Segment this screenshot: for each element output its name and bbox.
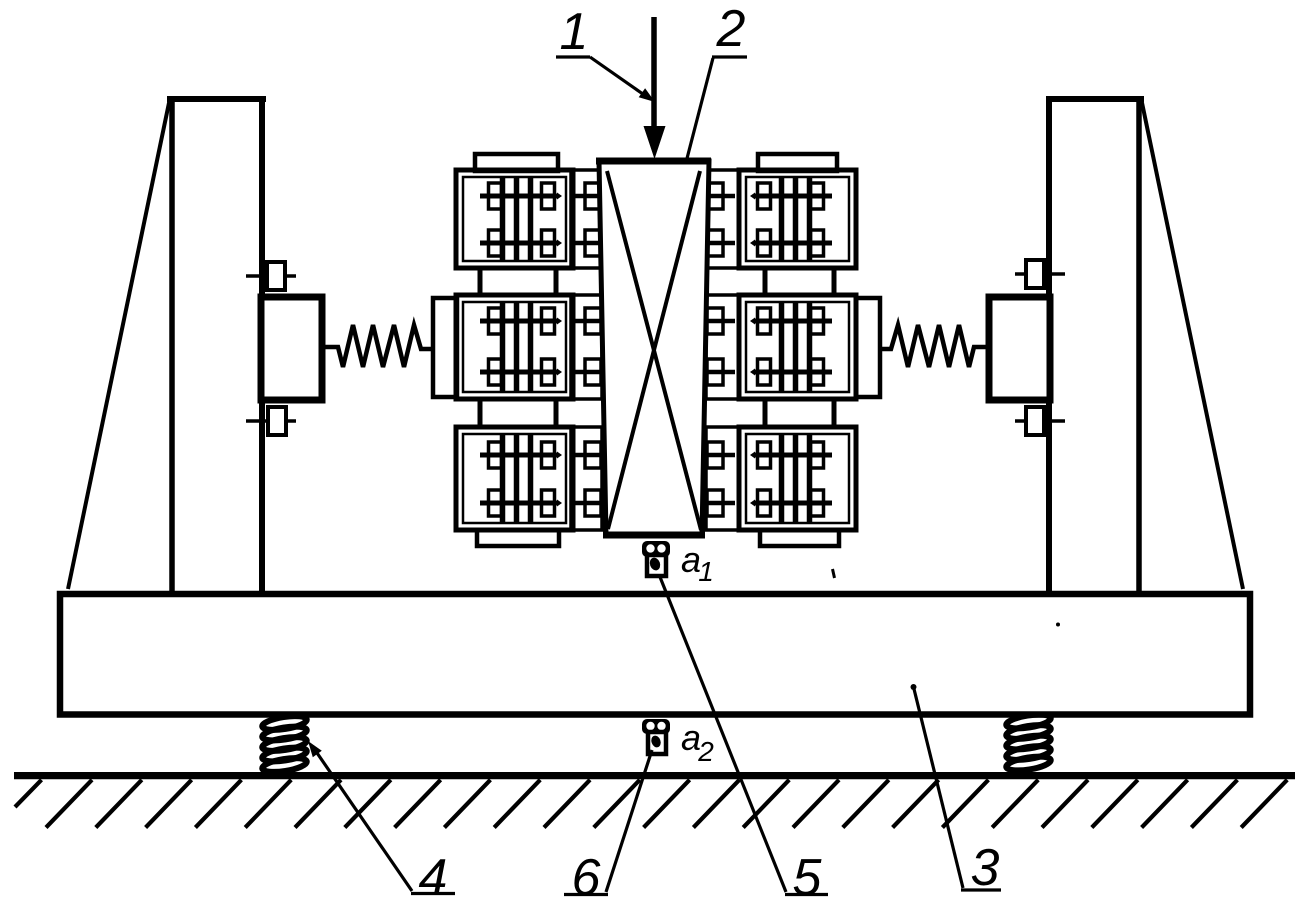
svg-text:6: 6 bbox=[572, 849, 601, 905]
mass block L1 tie bolt 1 tip bbox=[557, 193, 562, 200]
force arrow shaft bbox=[651, 17, 657, 130]
underline of label 1 bbox=[556, 55, 590, 58]
clamp plate L2 bolt 1 bbox=[575, 319, 602, 324]
right spring mount plate bbox=[856, 298, 880, 397]
mass block R3 tie bolt 2 tip bbox=[750, 500, 755, 507]
right support spring 4 bbox=[1005, 712, 1051, 731]
mass block L1 clamp bar 3 bbox=[528, 178, 534, 260]
mass block L1 outer body bbox=[456, 170, 573, 268]
svg-text:3: 3 bbox=[971, 839, 1000, 897]
left stack bottom tab bbox=[477, 530, 559, 546]
right connector link upper a bbox=[763, 266, 768, 297]
mass block L3 bolt bracket 2b bbox=[542, 490, 555, 516]
clamp plate R2 bolt 2 bbox=[706, 370, 735, 375]
right bracket upper bolt pin bbox=[1015, 272, 1065, 276]
left bracket upper bolt pin bbox=[246, 274, 296, 278]
svg-text:1: 1 bbox=[560, 3, 589, 61]
clamp plate R2 bbox=[706, 295, 739, 399]
right connector link lower a bbox=[763, 397, 768, 429]
mass block L1 bolt bracket 2a bbox=[489, 230, 502, 256]
mass block L2 clamp bar 1 bbox=[500, 303, 506, 391]
underline of label 6 bbox=[564, 893, 608, 896]
mass block R2 tie bolt 2 bbox=[754, 370, 832, 375]
left connector link upper b bbox=[554, 266, 559, 297]
svg-text:2: 2 bbox=[697, 736, 714, 767]
mass block R3 outer body bbox=[739, 427, 856, 530]
mass block R1 tie bolt 2 tip bbox=[750, 240, 755, 247]
mass block R1 bolt bracket 2a bbox=[811, 230, 824, 256]
mass block R2 outer body bbox=[739, 295, 856, 399]
sensor a1 head hole right bbox=[657, 544, 665, 552]
left connector link lower a bbox=[478, 397, 483, 429]
mass block R3 clamp bar 1 bbox=[807, 435, 813, 522]
base plate 3 bbox=[60, 594, 1250, 715]
mass block R3 bolt bracket 1b bbox=[758, 442, 771, 468]
left spring bracket bbox=[261, 297, 322, 400]
right bracket lower bolt pin bbox=[1015, 419, 1065, 423]
mass block R2 clamp bar 2 bbox=[793, 303, 799, 391]
right bracket upper bolt body bbox=[1026, 260, 1044, 288]
mass block R2 inner liner bbox=[746, 302, 849, 392]
leader line 1 with arrowhead bbox=[590, 57, 645, 96]
leader line 2 bbox=[662, 58, 713, 255]
svg-text:4: 4 bbox=[419, 849, 448, 905]
clamp plate L3 bbox=[571, 427, 602, 530]
clamp plate R2 bolt 1 bbox=[706, 319, 735, 324]
mass block L1 tie bolt 1 bbox=[480, 194, 558, 199]
sensor a2 head hole left bbox=[646, 722, 654, 730]
mass block L1 tie bolt 2 bbox=[480, 241, 558, 246]
specimen column 2 body bbox=[599, 161, 709, 535]
mass block L2 bolt bracket 1b bbox=[542, 308, 555, 334]
left bracket lower bolt body bbox=[268, 407, 286, 435]
mass block R1 inner liner bbox=[746, 177, 849, 261]
clamp plate R3 bolt 2 bbox=[706, 501, 735, 506]
mass block L3 tie bolt 1 tip bbox=[557, 452, 562, 459]
specimen X diagonal a bbox=[607, 171, 701, 530]
right post left edge bbox=[1046, 96, 1052, 591]
mass block L1 clamp bar 2 bbox=[514, 178, 520, 260]
right post top edge bbox=[1046, 96, 1144, 102]
ground line bbox=[14, 772, 1295, 779]
mass block L2 bolt bracket 1a bbox=[489, 308, 502, 334]
sensor a2 body mark bbox=[650, 734, 663, 748]
mass block L3 inner liner bbox=[463, 434, 566, 523]
left post left edge bbox=[169, 96, 175, 591]
mass block L2 bolt bracket 2a bbox=[489, 359, 502, 385]
clamp plate R1 bolt 2 bbox=[706, 241, 735, 246]
right horizontal coupling spring bbox=[880, 325, 990, 367]
mass block R1 clamp bar 1 bbox=[807, 178, 813, 260]
mass block L3 bolt bracket 2a bbox=[489, 490, 502, 516]
sensor a2 head hole right bbox=[657, 722, 665, 730]
specimen X diagonal b bbox=[608, 171, 700, 529]
right post diagonal brace bbox=[1141, 98, 1243, 589]
svg-text:5: 5 bbox=[793, 849, 823, 905]
left stack top tab bbox=[475, 154, 558, 171]
ground hatching bbox=[15, 780, 1287, 828]
clamp plate L1 bolt 2 bbox=[575, 241, 602, 246]
left connector link upper a bbox=[478, 266, 483, 297]
leader line 6 bbox=[606, 750, 652, 892]
svg-text:2: 2 bbox=[716, 0, 746, 58]
mass block L2 tie bolt 2 tip bbox=[557, 369, 562, 376]
mass block R3 clamp bar 3 bbox=[779, 435, 785, 522]
force arrow head bbox=[644, 126, 666, 159]
svg-text:1: 1 bbox=[698, 556, 714, 587]
leader line 3 bbox=[914, 689, 963, 888]
mass block R2 clamp bar 1 bbox=[807, 303, 813, 391]
mass block L3 clamp bar 1 bbox=[500, 435, 506, 522]
clamp plate L3 bolt 1 bbox=[575, 453, 602, 458]
mass block L2 clamp bar 3 bbox=[528, 303, 534, 391]
mass block L2 inner liner bbox=[463, 302, 566, 392]
mass block L3 tie bolt 1 bbox=[480, 453, 558, 458]
sensor a2 body bbox=[648, 732, 666, 754]
leader line 4 with arrowhead bbox=[315, 750, 412, 891]
mass block L1 bolt bracket 1a bbox=[489, 183, 502, 209]
sensor a1 head hole left bbox=[646, 544, 654, 552]
mass block L2 bolt bracket 2b bbox=[542, 359, 555, 385]
mass block L3 tie bolt 2 tip bbox=[557, 500, 562, 507]
mass block R2 bolt bracket 2b bbox=[758, 359, 771, 385]
leader 3 end dot bbox=[911, 684, 917, 690]
mass block L2 tie bolt 1 tip bbox=[557, 318, 562, 325]
mass block L3 bolt bracket 1b bbox=[542, 442, 555, 468]
specimen column 2 top face bbox=[596, 158, 711, 165]
underline of label 3 bbox=[961, 888, 1001, 891]
left bracket lower bolt pin bbox=[246, 419, 296, 423]
mass block R1 bolt bracket 1b bbox=[758, 183, 771, 209]
mass block L3 bolt bracket 1a bbox=[489, 442, 502, 468]
mass block R3 bolt bracket 2a bbox=[811, 490, 824, 516]
mass block R3 inner liner bbox=[746, 434, 849, 523]
mass block R1 bolt bracket 1a bbox=[811, 183, 824, 209]
left connector link lower b bbox=[554, 397, 559, 429]
mass block R1 clamp bar 3 bbox=[779, 178, 785, 260]
mass block R1 bolt bracket 2b bbox=[758, 230, 771, 256]
clamp plate R1 bbox=[706, 170, 739, 268]
mass block R2 bolt bracket 2a bbox=[811, 359, 824, 385]
right post right edge bbox=[1136, 96, 1142, 591]
speck right of a1 bbox=[833, 569, 835, 578]
mass block L1 bolt bracket 2b bbox=[542, 230, 555, 256]
clamp plate L2 bolt 2 bbox=[575, 370, 602, 375]
clamp plate R3 bbox=[706, 427, 739, 530]
mass block L2 clamp bar 2 bbox=[514, 303, 520, 391]
mass block R3 tie bolt 1 tip bbox=[750, 452, 755, 459]
specimen column 2 bottom face bbox=[603, 532, 705, 539]
underline of label 2 bbox=[712, 55, 747, 58]
mass block L1 tie bolt 2 tip bbox=[557, 240, 562, 247]
mass block L2 outer body bbox=[456, 295, 573, 399]
right spring bracket bbox=[989, 297, 1050, 400]
sensor a1 head bbox=[642, 541, 670, 557]
mass block R2 clamp bar 3 bbox=[779, 303, 785, 391]
mass block L2 tie bolt 1 bbox=[480, 319, 558, 324]
right connector link lower b bbox=[832, 397, 837, 429]
left horizontal coupling spring bbox=[322, 325, 433, 367]
mass block R2 tie bolt 1 tip bbox=[750, 318, 755, 325]
right stack bottom tab bbox=[760, 530, 839, 546]
mass block R1 tie bolt 2 bbox=[754, 241, 832, 246]
clamp plate L2 bbox=[571, 295, 602, 399]
mass block L1 inner liner bbox=[463, 177, 566, 261]
sensor a1 body mark bbox=[648, 556, 662, 572]
mass block R3 tie bolt 2 bbox=[754, 501, 832, 506]
mass block L1 bolt bracket 1b bbox=[542, 183, 555, 209]
mass block L3 outer body bbox=[456, 427, 573, 530]
clamp plate L1 bolt 1 bbox=[575, 194, 602, 199]
mass block L3 tie bolt 2 bbox=[480, 501, 558, 506]
underline of label 5 bbox=[785, 893, 828, 896]
mass block R1 tie bolt 1 bbox=[754, 194, 832, 199]
left post top edge bbox=[167, 96, 266, 102]
mass block L1 clamp bar 1 bbox=[500, 178, 506, 260]
right connector link upper b bbox=[832, 266, 837, 297]
left bracket upper bolt body bbox=[267, 262, 285, 290]
mass block R1 clamp bar 2 bbox=[793, 178, 799, 260]
left post diagonal brace bbox=[68, 98, 170, 589]
mass block L3 clamp bar 2 bbox=[514, 435, 520, 522]
mass block R1 outer body bbox=[739, 170, 856, 268]
leader line 5 bbox=[660, 577, 786, 892]
sensor a1 body bbox=[647, 555, 666, 576]
clamp plate L1 bbox=[571, 170, 602, 268]
left post right edge bbox=[259, 96, 265, 591]
clamp plate R3 bolt 1 bbox=[706, 453, 735, 458]
right bracket lower bolt body bbox=[1026, 407, 1044, 435]
clamp plate L3 bolt 2 bbox=[575, 501, 602, 506]
speck above base right bbox=[1056, 623, 1060, 627]
mass block R2 tie bolt 2 tip bbox=[750, 369, 755, 376]
mass block R3 bolt bracket 2b bbox=[758, 490, 771, 516]
mass block R3 clamp bar 2 bbox=[793, 435, 799, 522]
sensor a2 head bbox=[642, 719, 670, 734]
mass block R1 tie bolt 1 tip bbox=[750, 193, 755, 200]
mass block L2 tie bolt 2 bbox=[480, 370, 558, 375]
left spring mount plate bbox=[433, 298, 457, 397]
mass block R3 tie bolt 1 bbox=[754, 453, 832, 458]
mass block L3 clamp bar 3 bbox=[528, 435, 534, 522]
mass block R3 bolt bracket 1a bbox=[811, 442, 824, 468]
mass block R2 bolt bracket 1a bbox=[811, 308, 824, 334]
mass block R2 tie bolt 1 bbox=[754, 319, 832, 324]
mass block R2 bolt bracket 1b bbox=[758, 308, 771, 334]
right stack top tab bbox=[758, 154, 837, 171]
underline of label 4 bbox=[411, 892, 455, 895]
clamp plate R1 bolt 1 bbox=[706, 194, 735, 199]
left support spring 4 bbox=[261, 714, 307, 733]
